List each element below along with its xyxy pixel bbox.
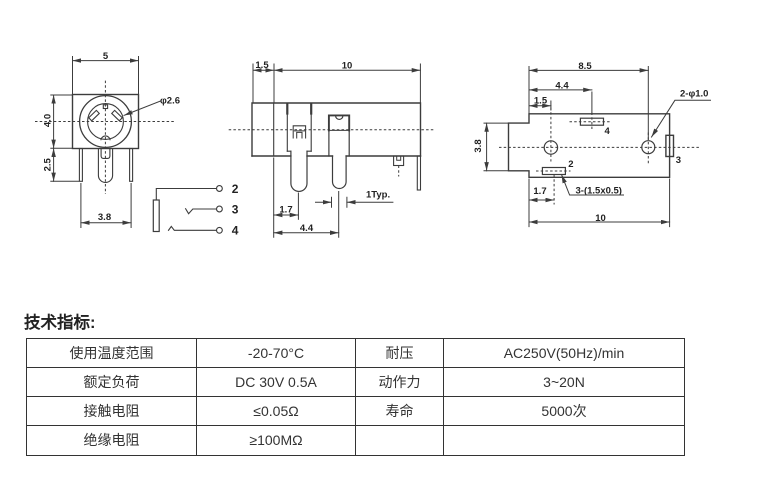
svg-text:3: 3 [676, 155, 681, 166]
svg-text:1.7: 1.7 [533, 186, 546, 197]
dim 1Typ text [366, 190, 390, 201]
side view body bottom segments [252, 155, 421, 157]
label 2-phi1.0 [652, 89, 711, 138]
slot 3 [666, 135, 674, 156]
contact 1 channel [287, 103, 311, 151]
front view outer circle [80, 96, 132, 148]
right hole [642, 141, 655, 154]
svg-text:4.4: 4.4 [555, 80, 569, 91]
section title [24, 309, 96, 333]
center pin outer [98, 149, 112, 183]
right contact slot [112, 110, 123, 120]
side view front panel line [273, 103, 275, 156]
dim 1.5 line [253, 69, 274, 71]
label 3 top view [676, 155, 681, 166]
contact 1 steps [287, 150, 311, 152]
side tab pin 3 [394, 156, 404, 177]
svg-text:2: 2 [568, 159, 573, 170]
svg-text:1Typ.: 1Typ. [366, 190, 390, 201]
bottom arc bump [101, 136, 110, 140]
dims 1.5 10 extension lines [253, 64, 420, 103]
dim 1.7 side line [274, 214, 299, 216]
contact 2 lug [333, 156, 347, 189]
contact 1 hook detail [293, 126, 305, 138]
svg-text:8.5: 8.5 [578, 61, 592, 72]
dim 1.5 text [255, 60, 269, 71]
svg-text:2: 2 [232, 182, 239, 196]
terminal 3 circle [217, 206, 223, 212]
contact 2 pillar [329, 115, 349, 156]
terminal 4 circle [217, 227, 223, 233]
dim 4.0 2.5 extension ticks [51, 95, 79, 181]
svg-text:3.8: 3.8 [98, 212, 111, 223]
wire terminal 3 [186, 209, 217, 214]
dim 3.8 text [98, 212, 111, 223]
label phi2.6 [160, 95, 180, 106]
side rear pin [417, 156, 420, 190]
slot 2 [536, 168, 571, 205]
dim 4.0 2.5 line [53, 95, 55, 181]
dim 1.7 side text [279, 204, 292, 215]
front view inner circle [88, 104, 124, 140]
left pin [79, 149, 82, 182]
svg-text:10: 10 [342, 61, 353, 72]
dim 10 top view [529, 179, 670, 227]
svg-text:10: 10 [595, 213, 606, 224]
dim 10 text [342, 61, 353, 72]
slot 4 [570, 118, 612, 125]
dim 5 extension lines [73, 57, 139, 95]
wire terminal 2 [156, 189, 216, 201]
svg-text:4.0: 4.0 [43, 114, 54, 127]
key square [103, 105, 107, 109]
label 2 top view [568, 159, 573, 170]
dim 1Typ lines [316, 201, 393, 203]
terminal plug bar [153, 200, 159, 232]
right hole vertical centerline [647, 133, 649, 165]
front view body [73, 95, 139, 149]
svg-text:4.4: 4.4 [300, 223, 314, 234]
dim 4.4 top [529, 80, 592, 129]
svg-text:3: 3 [232, 202, 239, 216]
label 4 top view [605, 126, 611, 137]
label 3 [232, 202, 239, 216]
label 3-(1.5x0.5) [562, 175, 624, 197]
dim 1.5 top [529, 95, 551, 110]
svg-text:1.7: 1.7 [279, 204, 292, 215]
top view centerline [499, 146, 700, 148]
dim 3.8 line [81, 222, 131, 224]
dim 4.4 side line [274, 232, 339, 234]
front view centerline vertical [104, 81, 106, 194]
front view centerline horizontal [35, 121, 176, 123]
svg-text:5: 5 [103, 51, 109, 62]
center pin inner sleeve [101, 149, 110, 159]
side view body [252, 103, 421, 156]
dim 8.5 [529, 61, 648, 140]
dim 3.8 top view [473, 123, 508, 171]
svg-text:4: 4 [232, 224, 239, 238]
svg-text:1.5: 1.5 [255, 60, 269, 71]
svg-text:φ2.6: φ2.6 [160, 95, 180, 106]
dim 1.7 side extension [297, 193, 299, 219]
dim 4.4 side text [300, 223, 314, 234]
svg-text:4: 4 [605, 126, 611, 137]
dim 4.4 side extensions [274, 158, 339, 237]
spec table [26, 338, 685, 456]
dim 1.7 top view [529, 186, 554, 200]
side view centerline [229, 129, 436, 131]
top dims left extension [528, 67, 530, 114]
left contact slot [89, 110, 100, 120]
svg-text:1.5: 1.5 [534, 95, 548, 106]
left hole [544, 141, 557, 154]
right pin [130, 149, 133, 182]
dim 3.8 extension lines [81, 184, 131, 228]
dim 10 line [274, 69, 420, 71]
dim 5 text [103, 51, 109, 62]
contact 1 lug [291, 151, 307, 191]
dim 5 line [73, 60, 139, 62]
label 2 [232, 182, 239, 196]
svg-text:2.5: 2.5 [43, 157, 54, 171]
label 4 [232, 224, 239, 238]
terminal 2 circle [217, 186, 223, 192]
svg-text:3.8: 3.8 [473, 139, 484, 152]
leader phi2.6 [124, 101, 161, 115]
dim 4.0 text [43, 114, 54, 127]
top view outline [509, 114, 670, 178]
dim 2.5 text [43, 157, 54, 171]
svg-text:2-φ1.0: 2-φ1.0 [680, 89, 708, 100]
left hole vertical centerline [550, 108, 552, 162]
wire terminal 4 [169, 226, 217, 230]
dim 1Typ extensions [332, 197, 347, 207]
